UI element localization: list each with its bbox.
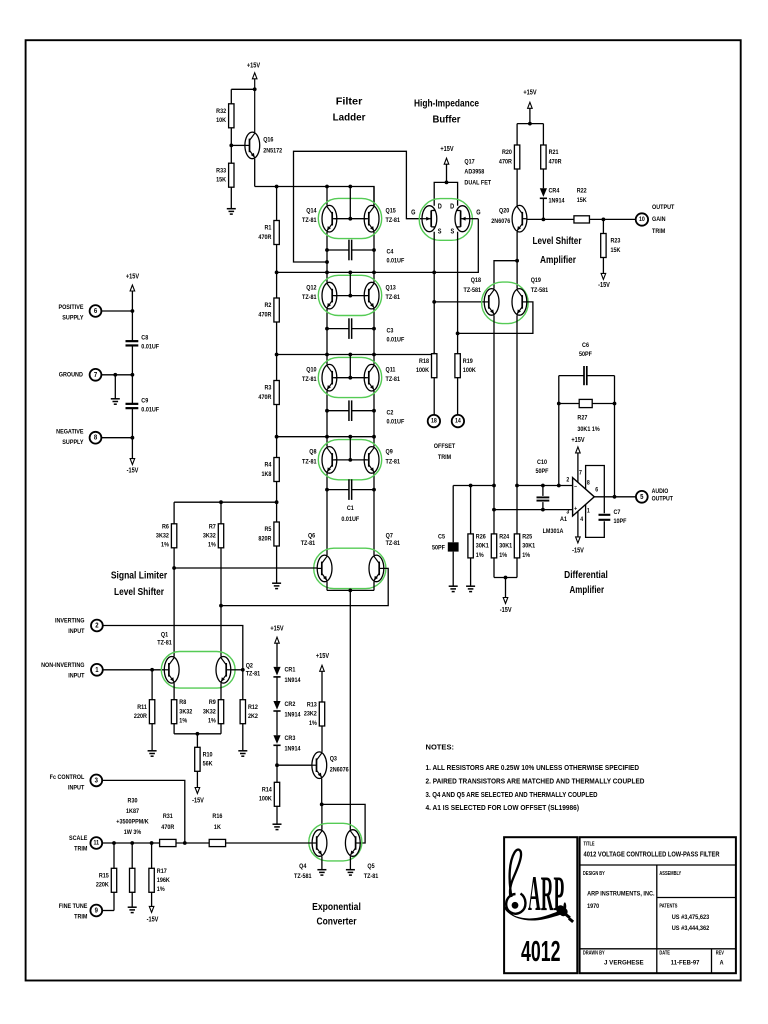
wire C5 column	[452, 486, 454, 543]
wire rail 2	[277, 219, 479, 273]
svg-text:2: 2	[95, 622, 99, 630]
wire +15V to CR1	[276, 643, 278, 667]
wire left FET source to R18	[433, 302, 435, 354]
svg-text:0.01UF: 0.01UF	[387, 257, 405, 265]
svg-text:R18: R18	[419, 357, 429, 365]
wire Q3 emitter node	[321, 779, 323, 805]
svg-text:Exponential: Exponential	[312, 901, 361, 913]
resistor R31	[160, 812, 176, 846]
wire compensation box	[586, 466, 605, 514]
wire terminal 6 to supply column	[102, 310, 133, 312]
svg-text:0.01UF: 0.01UF	[141, 406, 159, 414]
transistor Q10	[322, 364, 337, 391]
svg-text:INVERTING: INVERTING	[55, 617, 85, 625]
green outline Q18/Q19 matched pair	[482, 282, 529, 324]
svg-text:Q5: Q5	[367, 863, 375, 871]
svg-text:-15V: -15V	[500, 607, 512, 615]
wire rail 3	[277, 354, 435, 356]
svg-text:100K: 100K	[463, 366, 476, 374]
wire R21 to CR4	[542, 169, 544, 188]
svg-text:18: 18	[431, 418, 437, 425]
svg-text:1N914: 1N914	[285, 711, 302, 719]
wire R14 leads	[276, 765, 278, 782]
capacitor C4	[327, 249, 349, 251]
svg-text:C7: C7	[614, 509, 621, 517]
svg-text:DRAWN BY: DRAWN BY	[583, 950, 605, 956]
wire R7 column to Q2 collector	[220, 606, 222, 657]
wire terminal 9 to R15	[102, 910, 114, 912]
green outline Q6/Q7 matched pair	[314, 548, 386, 588]
wire terminal 2 to Q2 base column	[103, 626, 243, 700]
svg-text:3K32: 3K32	[179, 708, 192, 716]
svg-text:11-FEB-97: 11-FEB-97	[671, 959, 700, 966]
svg-text:1N914: 1N914	[549, 197, 566, 205]
green outline Q17 dual FET	[419, 199, 472, 241]
svg-text:470R: 470R	[258, 393, 271, 401]
svg-text:Q12: Q12	[306, 284, 317, 292]
svg-text:TZ-81: TZ-81	[386, 294, 401, 302]
svg-text:OUTPUT: OUTPUT	[652, 496, 674, 503]
svg-text:+15V: +15V	[523, 89, 537, 97]
wire CR4 to Q20 base line	[542, 198, 544, 219]
svg-text:10: 10	[639, 216, 645, 223]
wire Q2 emitter to R9	[220, 683, 222, 700]
svg-text:R11: R11	[137, 703, 147, 711]
svg-text:Q10: Q10	[306, 366, 317, 374]
svg-text:3: 3	[95, 777, 99, 785]
resistor R33	[216, 163, 234, 187]
svg-text:0.01UF: 0.01UF	[387, 418, 405, 426]
resistor R7	[203, 523, 224, 549]
diode CR2	[273, 701, 280, 711]
svg-text:SUPPLY: SUPPLY	[62, 439, 83, 447]
transistor Q12	[322, 282, 337, 309]
wire Q16 emitter to ladder rail	[254, 159, 256, 187]
svg-text:2N6076: 2N6076	[491, 217, 511, 225]
svg-text:+15V: +15V	[571, 436, 585, 444]
svg-text:DATE: DATE	[659, 950, 670, 956]
svg-text:R16: R16	[212, 812, 222, 820]
capacitor C5	[448, 542, 459, 551]
svg-text:11: 11	[94, 840, 100, 847]
resistor R8	[171, 699, 192, 725]
+15V supply arrow (level shifter)	[523, 89, 537, 109]
svg-text:3. Q4 AND Q5 ARE SELECTED AND: 3. Q4 AND Q5 ARE SELECTED AND THERMALLY …	[426, 790, 598, 799]
resistor R26	[468, 533, 489, 559]
svg-text:15K: 15K	[577, 197, 587, 205]
capacitor C6	[559, 375, 584, 377]
wire R24/R25 bottoms to -15V	[493, 558, 495, 578]
svg-text:4012 VOLTAGE CONTROLLED LOW-P: 4012 VOLTAGE CONTROLLED LOW-PASS FILTER	[584, 851, 720, 858]
wire +15V to Q16 collector and R32	[254, 79, 256, 132]
svg-text:Q11: Q11	[386, 366, 396, 374]
svg-text:TZ-81: TZ-81	[386, 539, 401, 547]
svg-text:1N914: 1N914	[285, 745, 302, 753]
svg-text:R10: R10	[203, 751, 213, 759]
capacitor C1	[327, 489, 349, 491]
transistor Q3	[312, 752, 327, 779]
resistor R27	[577, 399, 600, 433]
svg-text:+15V: +15V	[247, 62, 261, 70]
ARP logo clef	[504, 850, 562, 921]
transistor Q15	[364, 205, 379, 232]
svg-text:G: G	[476, 209, 480, 217]
capacitor C7	[599, 514, 611, 516]
ground (terminal 7)	[111, 399, 120, 404]
svg-text:50PF: 50PF	[579, 351, 592, 359]
svg-text:-15V: -15V	[192, 797, 204, 805]
resistor R13	[304, 701, 325, 727]
svg-text:100K: 100K	[259, 795, 272, 803]
svg-text:Fc CONTROL: Fc CONTROL	[50, 774, 85, 782]
svg-text:TZ-81: TZ-81	[302, 458, 317, 466]
svg-text:R26: R26	[476, 533, 486, 541]
svg-text:Level Shifter: Level Shifter	[114, 586, 164, 598]
green outline Q1/Q2 matched pair	[161, 652, 235, 689]
svg-text:TRIM: TRIM	[74, 913, 87, 921]
svg-text:TZ-581: TZ-581	[294, 873, 312, 881]
terminal 5	[636, 491, 648, 503]
wire plus-input left segment	[453, 485, 494, 487]
svg-text:2K2: 2K2	[248, 712, 258, 720]
wire supply column upper	[131, 291, 133, 341]
svg-text:7: 7	[94, 371, 98, 379]
svg-text:1%: 1%	[309, 719, 317, 727]
resistor R5	[258, 522, 279, 546]
svg-text:1. ALL RESISTORS ARE 0.25W 10%: 1. ALL RESISTORS ARE 0.25W 10% UNLESS OT…	[426, 763, 640, 772]
svg-text:470R: 470R	[258, 311, 271, 319]
svg-text:4. A1 IS SELECTED FOR LOW OFFS: 4. A1 IS SELECTED FOR LOW OFFSET (SL1998…	[426, 803, 580, 812]
wire Q20 base to R22	[527, 218, 574, 220]
svg-text:S: S	[450, 228, 454, 236]
wire base link Q10-Q11	[335, 377, 367, 379]
svg-text:R22: R22	[577, 187, 587, 195]
ground (C5)	[449, 586, 458, 591]
transistor Q7	[369, 555, 384, 582]
terminal 18	[428, 415, 440, 427]
wire R17 to -15V	[151, 892, 153, 906]
svg-text:S: S	[438, 228, 442, 236]
wire Q2 base stub	[231, 669, 243, 671]
svg-text:SCALE: SCALE	[69, 834, 87, 842]
svg-text:R13: R13	[307, 701, 317, 709]
svg-text:TZ-81: TZ-81	[157, 639, 172, 647]
wire mid stub to rail	[349, 272, 351, 295]
terminal 10	[636, 213, 648, 225]
transistor Q13	[364, 282, 379, 309]
svg-text:R3: R3	[264, 384, 271, 392]
resistor R14	[259, 782, 280, 806]
svg-text:TZ-81: TZ-81	[302, 294, 317, 302]
resistor R12	[240, 700, 258, 724]
wire Q18 collector	[494, 261, 517, 289]
wire Q4 collector	[321, 804, 323, 829]
svg-text:INPUT: INPUT	[68, 784, 84, 792]
svg-text:+15V: +15V	[126, 273, 140, 281]
-15V supply arrow (R24/R25)	[500, 598, 512, 615]
svg-text:1%: 1%	[208, 717, 216, 725]
wire trim row left	[102, 842, 159, 844]
transistor Q18	[484, 289, 499, 316]
wire mid stub to rail	[349, 437, 351, 460]
wire Q19 emitter down	[516, 315, 518, 534]
svg-text:23K2: 23K2	[304, 710, 317, 718]
wire R33 to ground	[230, 187, 232, 209]
transistor Q2	[216, 657, 231, 684]
svg-text:470R: 470R	[258, 233, 271, 241]
op-amp A1	[543, 470, 599, 535]
svg-text:R27: R27	[577, 414, 587, 422]
svg-text:TZ-81: TZ-81	[386, 458, 401, 466]
svg-text:C3: C3	[387, 327, 394, 335]
svg-text:C2: C2	[387, 409, 394, 417]
transistor Q19	[512, 289, 527, 316]
svg-text:1%: 1%	[476, 551, 484, 559]
svg-text:9: 9	[95, 907, 99, 915]
svg-text:C8: C8	[141, 334, 148, 342]
svg-text:AD3958: AD3958	[464, 168, 484, 176]
wire R6 column to Q1 collector	[173, 568, 175, 657]
svg-text:C9: C9	[141, 397, 148, 405]
svg-text:Level Shifter: Level Shifter	[533, 235, 582, 247]
terminal 2	[91, 620, 103, 632]
svg-text:LM301A: LM301A	[543, 528, 564, 536]
svg-text:TZ-81: TZ-81	[364, 873, 379, 881]
resistor R4	[261, 458, 279, 482]
svg-text:R4: R4	[264, 461, 271, 469]
svg-text:TZ-581: TZ-581	[464, 286, 482, 294]
svg-text:30K1 1%: 30K1 1%	[577, 425, 600, 433]
wire R22 to terminal 10	[590, 218, 637, 220]
wire R27 leads	[559, 403, 579, 405]
title block dividers	[580, 864, 736, 866]
svg-text:0.01UF: 0.01UF	[387, 336, 405, 344]
wire R6 to Q6 base	[173, 548, 175, 568]
title block logo box	[504, 837, 577, 973]
resistor R18	[416, 354, 437, 378]
resistor R11	[134, 700, 155, 724]
wire left FET source to Q18 base	[433, 232, 435, 302]
svg-text:+15V: +15V	[270, 625, 284, 633]
svg-text:C1: C1	[347, 505, 354, 513]
+15V supply arrow (diode chain)	[270, 625, 284, 643]
wire +15V bar to R20/R21	[529, 108, 531, 123]
svg-text:3K32: 3K32	[203, 532, 216, 540]
svg-text:Q16: Q16	[263, 136, 274, 144]
transistor Q14	[322, 205, 337, 232]
svg-text:R2: R2	[264, 302, 271, 310]
ARP logo plug icon	[555, 904, 574, 923]
capacitor C8	[126, 341, 139, 345]
svg-text:Q1: Q1	[161, 631, 169, 639]
svg-text:A: A	[720, 959, 724, 967]
svg-text:1%: 1%	[157, 886, 165, 894]
resistor R15	[96, 868, 117, 892]
svg-text:Ladder: Ladder	[333, 111, 366, 123]
svg-text:TZ-81: TZ-81	[302, 376, 317, 384]
wire trim row to Q4 base	[226, 842, 313, 844]
svg-text:R21: R21	[549, 149, 559, 157]
svg-text:TITLE: TITLE	[584, 841, 595, 847]
svg-text:DESIGN BY: DESIGN BY	[583, 871, 605, 877]
resistor R6	[156, 523, 177, 549]
ground (Q5)	[346, 870, 355, 875]
wire op-amp pin 7 stub	[577, 453, 579, 483]
transistor Q20	[512, 205, 527, 232]
svg-text:1%: 1%	[161, 541, 169, 549]
diode CR4	[540, 188, 547, 198]
svg-text:R6: R6	[162, 523, 169, 531]
transistor Q5	[345, 830, 360, 857]
resistor R21	[541, 145, 562, 169]
svg-text:Q8: Q8	[309, 448, 317, 456]
wire FET gate loop from ladder	[294, 151, 423, 262]
svg-text:+15V: +15V	[316, 653, 330, 661]
resistor R2	[258, 298, 279, 322]
wire R30 top	[131, 843, 133, 868]
svg-text:30K1: 30K1	[499, 542, 512, 550]
svg-text:CR4: CR4	[549, 187, 560, 195]
svg-text:TRIM: TRIM	[438, 454, 451, 462]
svg-text:1%: 1%	[522, 551, 530, 559]
terminal 1	[91, 664, 103, 676]
svg-text:470R: 470R	[161, 823, 174, 831]
svg-text:GAIN: GAIN	[652, 216, 666, 224]
svg-text:1%: 1%	[208, 541, 216, 549]
wire FET drain bar	[446, 164, 448, 182]
wire R20 to Q20 collector	[516, 169, 518, 206]
svg-text:+: +	[574, 506, 578, 513]
svg-text:AUDIO: AUDIO	[652, 489, 669, 496]
wire terminal 7 to supply column	[102, 374, 133, 376]
wire Q18 emitter down	[493, 315, 495, 534]
wire R17 top	[151, 843, 153, 868]
terminal 6	[90, 305, 102, 317]
terminal 7	[90, 369, 102, 381]
svg-text:TZ-81: TZ-81	[246, 670, 261, 678]
svg-text:INPUT: INPUT	[68, 628, 84, 636]
svg-text:5: 5	[640, 493, 644, 501]
svg-text:NON-INVERTING: NON-INVERTING	[41, 661, 85, 669]
title block fields box	[580, 837, 736, 973]
svg-text:2N6076: 2N6076	[330, 766, 350, 774]
capacitor C9	[126, 404, 139, 408]
svg-text:+15V: +15V	[440, 145, 454, 153]
wire base link Q8-Q9	[335, 459, 367, 461]
svg-text:Q13: Q13	[386, 284, 397, 292]
ground (R33)	[227, 209, 236, 214]
svg-text:ARP INSTRUMENTS, INC.: ARP INSTRUMENTS, INC.	[587, 891, 654, 898]
resistor R17	[149, 867, 170, 893]
wire right FET gate to rail 2	[470, 218, 479, 220]
svg-text:Q15: Q15	[386, 207, 397, 215]
svg-text:Buffer: Buffer	[433, 114, 461, 126]
svg-text:470R: 470R	[499, 158, 512, 166]
wire R6/R7 top rail	[174, 501, 277, 503]
svg-text:Q18: Q18	[471, 276, 482, 284]
svg-text:R20: R20	[502, 149, 512, 157]
svg-text:D: D	[450, 203, 454, 211]
svg-text:SUPPLY: SUPPLY	[62, 314, 83, 322]
svg-text:Q20: Q20	[499, 207, 510, 215]
svg-text:50PF: 50PF	[432, 544, 445, 552]
svg-text:220K: 220K	[96, 881, 109, 889]
svg-text:OFFSET: OFFSET	[434, 443, 456, 451]
resistor R10	[195, 747, 213, 771]
wire R8/R9 bottoms join	[173, 724, 175, 734]
wire Q3 emitter to Q5 base	[322, 804, 365, 843]
wire Q19 base to right FET source	[458, 302, 533, 334]
svg-text:PATENTS: PATENTS	[659, 903, 677, 909]
svg-text:100K: 100K	[416, 366, 429, 374]
wire mid stub to rail	[349, 355, 351, 378]
svg-text:G: G	[411, 209, 415, 217]
svg-text:C10: C10	[537, 459, 547, 467]
-15V supply arrow (op-amp)	[572, 537, 584, 555]
svg-text:R1: R1	[264, 224, 271, 232]
transistor Q6	[317, 555, 332, 582]
wire R10 to -15V	[196, 771, 198, 787]
svg-text:Q2: Q2	[246, 662, 254, 670]
+15V supply arrow (supply rail)	[126, 273, 140, 291]
svg-text:2. PAIRED TRANSISTORS ARE MATC: 2. PAIRED TRANSISTORS ARE MATCHED AND TH…	[426, 777, 645, 786]
wire terminal 1 to Q1 base	[103, 669, 164, 671]
transistor Q17 right FET	[455, 206, 470, 232]
svg-text:NOTES:: NOTES:	[426, 743, 455, 752]
svg-text:820R: 820R	[258, 535, 271, 543]
svg-text:Q9: Q9	[386, 448, 394, 456]
resistor R20	[499, 145, 520, 169]
resistor R19	[455, 354, 476, 378]
svg-text:POSITIVE: POSITIVE	[58, 303, 83, 311]
svg-text:470R: 470R	[549, 158, 562, 166]
terminal 11	[90, 837, 102, 849]
svg-text:Amplifier: Amplifier	[540, 254, 576, 266]
svg-text:Converter: Converter	[317, 915, 357, 927]
resistor R9	[203, 699, 224, 725]
ground (R12)	[238, 751, 247, 756]
svg-text:Differential: Differential	[564, 569, 608, 581]
svg-text:1: 1	[95, 666, 99, 674]
wire right ladder bus	[373, 187, 375, 206]
green outline Q8/Q9 matched pair	[318, 440, 381, 480]
resistor R1	[258, 221, 279, 245]
wire ladder mid column to Q5 collector	[349, 590, 351, 829]
svg-text:56K: 56K	[203, 760, 213, 768]
svg-text:R7: R7	[209, 523, 216, 531]
svg-text:-15V: -15V	[598, 282, 610, 290]
svg-text:R8: R8	[179, 699, 186, 707]
svg-text:TRIM: TRIM	[74, 845, 87, 853]
wire trim row middle	[176, 842, 209, 844]
svg-text:R25: R25	[522, 533, 532, 541]
svg-text:TZ-81: TZ-81	[386, 376, 401, 384]
svg-text:TZ-81: TZ-81	[302, 217, 317, 225]
svg-text:-15V: -15V	[572, 547, 584, 555]
wire rail 4	[277, 436, 374, 438]
wire Q5 emitter to ground	[349, 856, 351, 869]
wire R30 to ground	[131, 892, 133, 907]
svg-text:0.01UF: 0.01UF	[141, 343, 159, 351]
svg-text:Q3: Q3	[330, 755, 338, 763]
terminal 14	[452, 415, 464, 427]
wire mid stub to rail	[349, 187, 351, 219]
wire R1 leads	[276, 187, 278, 221]
transistor Q9	[364, 447, 379, 474]
resistor R25	[514, 533, 535, 559]
transistor Q1	[164, 657, 179, 684]
transistor Q4	[312, 830, 327, 857]
